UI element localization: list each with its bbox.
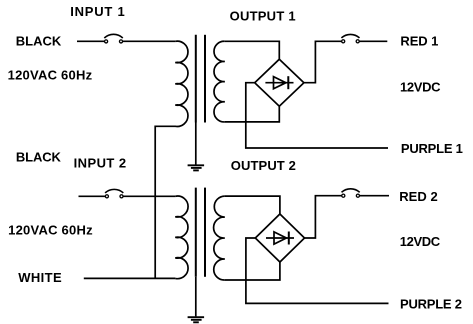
svg-text:INPUT 1: INPUT 1 xyxy=(70,4,125,19)
transformer T1 core left line xyxy=(195,35,197,123)
diode D1 triangle xyxy=(274,77,286,89)
svg-text:BLACK: BLACK xyxy=(16,150,62,165)
breaker CB2 right contact circle xyxy=(356,40,359,43)
diode D2 cathode bar xyxy=(288,232,290,245)
wire breaker CB2 to RED 1 xyxy=(359,40,387,42)
svg-text:120VAC 60Hz: 120VAC 60Hz xyxy=(8,68,93,83)
wire BR2 positive to RED 2 riser xyxy=(305,196,342,238)
svg-text:RED 1: RED 1 xyxy=(400,33,438,48)
breaker CB1 arc xyxy=(104,34,123,38)
wire T1 secondary bottom to bridge BR1 bottom xyxy=(225,106,279,122)
svg-text:PURPLE 2: PURPLE 2 xyxy=(400,296,462,311)
breaker CB2 left contact circle xyxy=(342,40,345,43)
ground G2 bar 2 xyxy=(191,319,202,321)
ground G2 bar 3 xyxy=(193,321,199,323)
transformer T1 core right line xyxy=(204,35,206,123)
wire breaker CB4 to RED 2 xyxy=(360,195,390,197)
ground G1 bar 3 xyxy=(193,169,199,171)
svg-text:OUTPUT 1: OUTPUT 1 xyxy=(230,9,296,24)
diode D2 triangle xyxy=(274,232,286,244)
wire BR1 positive to RED 1 riser xyxy=(304,41,342,82)
svg-text:120VAC 60Hz: 120VAC 60Hz xyxy=(8,223,93,238)
breaker CB3 arc xyxy=(105,189,123,193)
breaker CB3 right contact circle xyxy=(120,195,123,198)
transformer T1 secondary winding xyxy=(214,41,225,122)
wire T1 primary bottom to white rail xyxy=(154,125,156,278)
svg-text:WHITE: WHITE xyxy=(18,270,62,285)
svg-text:RED 2: RED 2 xyxy=(399,189,438,204)
breaker CB1 left contact circle xyxy=(105,40,108,43)
wire BR1 negative to PURPLE 1 xyxy=(246,83,388,148)
svg-text:INPUT 2: INPUT 2 xyxy=(74,155,127,170)
svg-text:OUTPUT 2: OUTPUT 2 xyxy=(231,158,296,173)
bridge rectifier BR1 diamond xyxy=(255,59,304,106)
wire white rail xyxy=(84,277,176,279)
svg-text:12VDC: 12VDC xyxy=(400,234,441,249)
breaker CB2 arc xyxy=(341,34,359,37)
transformer T1 primary winding xyxy=(155,41,188,126)
breaker CB4 arc xyxy=(342,189,360,193)
ground G2 bar 1 xyxy=(188,316,205,318)
wire T2 secondary top to bridge BR2 top xyxy=(225,196,280,214)
wire input 2 black lead xyxy=(79,195,106,197)
wire T1 core to ground xyxy=(195,123,197,165)
breaker CB4 left contact circle xyxy=(342,194,345,197)
diode D2 anode lead xyxy=(266,237,294,239)
bridge rectifier BR2 diamond xyxy=(255,214,304,262)
wire T1 secondary top to bridge BR1 top xyxy=(225,41,279,59)
wire breaker CB3 to T2 primary xyxy=(123,195,175,197)
diode D1 anode lead xyxy=(265,82,293,84)
ground G1 bar 2 xyxy=(191,167,202,169)
breaker CB4 right contact circle xyxy=(356,194,359,197)
ground G1 bar 1 xyxy=(188,164,205,166)
transformer T2 primary winding xyxy=(175,196,188,279)
svg-text:12VDC: 12VDC xyxy=(400,80,441,95)
wire T2 secondary bottom to bridge BR2 bottom xyxy=(225,262,280,280)
breaker CB3 left contact circle xyxy=(105,195,108,198)
svg-text:BLACK: BLACK xyxy=(16,33,62,48)
wire breaker CB1 to T1 primary xyxy=(123,40,176,42)
svg-text:PURPLE 1: PURPLE 1 xyxy=(401,141,463,156)
breaker CB1 right contact circle xyxy=(119,40,122,43)
transformer T2 core left line xyxy=(195,188,197,277)
diode D1 cathode bar xyxy=(287,76,289,89)
transformer T2 secondary winding xyxy=(214,196,225,280)
wire input 1 black lead xyxy=(77,40,104,42)
wire BR2 negative to PURPLE 2 xyxy=(246,238,389,303)
wire T2 core to ground xyxy=(195,277,197,317)
transformer T2 core right line xyxy=(204,188,206,277)
